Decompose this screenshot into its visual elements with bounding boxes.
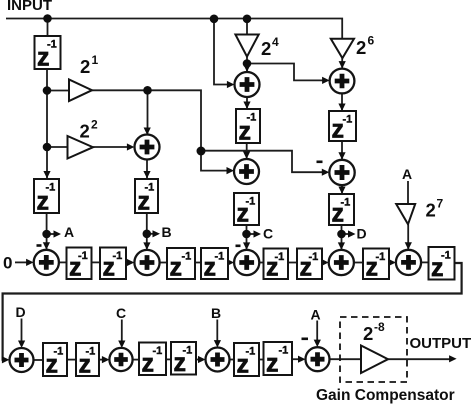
delay Z15 xyxy=(329,194,354,228)
amplifier 2^1 xyxy=(69,53,99,101)
wire adder S7 down into Z12 xyxy=(243,97,250,109)
delay Z4 xyxy=(100,248,126,282)
svg-text:-1: -1 xyxy=(47,39,57,51)
delay Z13 xyxy=(234,193,259,228)
minus sign at adder S3 input xyxy=(236,245,241,248)
wire adder S9 down into Z14 xyxy=(338,93,345,111)
svg-text:2: 2 xyxy=(261,38,271,59)
delay Z19 xyxy=(171,342,196,377)
svg-text:z: z xyxy=(266,350,279,378)
node input tap T2 xyxy=(210,14,219,23)
wire label C down into adder S12 xyxy=(118,320,125,349)
adder S6 xyxy=(135,135,160,160)
node N1 xyxy=(43,86,52,95)
wire Z12 down into adder S8 xyxy=(243,143,250,159)
svg-text:INPUT: INPUT xyxy=(7,0,52,14)
delay Z20 xyxy=(234,343,259,379)
adder S1 xyxy=(34,250,59,275)
svg-text:-1: -1 xyxy=(441,250,451,262)
svg-text:-1: -1 xyxy=(46,182,56,194)
svg-text:-1: -1 xyxy=(145,182,155,194)
wire adder S1 to Z3 xyxy=(59,261,67,263)
adder S13 xyxy=(206,348,230,372)
wire node N4 into adder S8 xyxy=(201,151,234,174)
delay Z11 xyxy=(135,179,158,216)
wire node N3 down into adder S6 xyxy=(144,90,151,135)
wire node N5 into adder S7 xyxy=(243,64,250,73)
wire Z2 through node A down into adder S1 xyxy=(43,213,50,250)
wire Z17 into adder S12 xyxy=(99,356,109,363)
svg-text:2: 2 xyxy=(363,323,373,344)
amplifier 2^2 xyxy=(68,118,99,159)
delay Z3 xyxy=(67,248,92,282)
delay Z12 xyxy=(236,109,260,146)
svg-text:1: 1 xyxy=(92,53,99,67)
svg-text:D: D xyxy=(357,226,367,242)
adder S2 xyxy=(134,250,159,275)
wire adder S10 down into Z15 xyxy=(338,185,345,194)
delay Z1 xyxy=(35,36,61,72)
wire adder S3 to Z7 xyxy=(259,262,263,264)
dashed box gain compensator xyxy=(340,317,407,382)
wire Z21 into adder S14 xyxy=(292,356,306,363)
adder S4 xyxy=(329,250,354,275)
svg-text:7: 7 xyxy=(437,197,444,211)
wire Z4 into adder S2 xyxy=(126,259,134,266)
adder S8 xyxy=(234,159,259,184)
wire node N2 to amp 2^2 xyxy=(47,146,68,148)
svg-text:6: 6 xyxy=(368,34,375,48)
wire adder S2 to Z5 xyxy=(160,262,167,264)
delay Z9 xyxy=(363,249,389,282)
node input tap T3 xyxy=(243,14,252,23)
wire Z1 to node N1 xyxy=(46,69,48,91)
delay Z8 xyxy=(297,249,322,282)
wire node N5 to adder S9 xyxy=(247,64,330,85)
adder S7 xyxy=(235,72,260,97)
wire node C to label C xyxy=(247,230,262,237)
wire Z20 to Z21 xyxy=(259,359,264,361)
svg-text:-1: -1 xyxy=(247,112,257,124)
node N5 xyxy=(243,59,252,68)
node N3 xyxy=(143,86,152,95)
node input tap T1 xyxy=(43,14,52,23)
minus sign at adder S1 input xyxy=(37,244,42,247)
delay Z21 xyxy=(264,342,293,378)
svg-text:A: A xyxy=(402,166,412,182)
adder S3 xyxy=(234,250,259,275)
delay Z6 xyxy=(201,248,228,282)
delay Z5 xyxy=(167,248,195,282)
wire amp 2^1 output to corner node N4 xyxy=(92,90,201,151)
wire amp 2^6 into adder S9 xyxy=(339,58,346,68)
amplifier 2^4 xyxy=(235,35,279,60)
adder S9 xyxy=(330,69,355,94)
svg-text:-1: -1 xyxy=(113,250,123,262)
wire amp 2^7 into adder S5 xyxy=(405,224,412,250)
svg-text:B: B xyxy=(211,305,221,321)
svg-text:Gain Compensator: Gain Compensator xyxy=(316,387,455,404)
delay Z16 xyxy=(43,343,67,379)
delay Z17 xyxy=(76,343,99,379)
wire node N1 to amp 2^1 xyxy=(47,90,69,92)
wire label A down to amp 2^7 xyxy=(407,181,409,204)
delay Z7 xyxy=(264,249,289,282)
wire amp 2^4 output to node N5 xyxy=(246,57,248,64)
svg-text:-1: -1 xyxy=(86,346,96,358)
wire label D down into adder S11 xyxy=(18,319,25,349)
svg-text:D: D xyxy=(16,304,26,320)
wire gain amp to output xyxy=(388,355,457,362)
svg-text:B: B xyxy=(162,224,172,240)
wire Z6 into adder S3 xyxy=(227,259,235,266)
adder S10 xyxy=(329,160,354,185)
wire Z9 into adder S5 xyxy=(388,259,396,266)
wire Z16 to Z17 xyxy=(67,359,76,361)
wire Z8 into adder S4 xyxy=(321,259,329,266)
adder S14 xyxy=(306,347,330,371)
wire node B to label B xyxy=(147,230,160,237)
svg-text:-1: -1 xyxy=(309,251,319,263)
svg-text:-1: -1 xyxy=(183,345,193,357)
svg-text:2: 2 xyxy=(80,121,90,142)
node N2 xyxy=(43,143,52,152)
svg-text:C: C xyxy=(116,305,126,321)
svg-text:-1: -1 xyxy=(215,251,225,263)
amplifier 2^7 xyxy=(396,197,443,225)
adder S11 xyxy=(10,348,34,372)
svg-text:-1: -1 xyxy=(182,251,192,263)
svg-text:-1: -1 xyxy=(376,251,386,263)
wire adder S11 to Z16 xyxy=(34,359,43,361)
node D xyxy=(337,230,346,239)
svg-text:-1: -1 xyxy=(246,346,256,358)
node A xyxy=(42,230,51,239)
svg-text:A: A xyxy=(64,224,74,240)
amplifier gain 2^-8 xyxy=(361,320,388,373)
wire input tap down to Z1 xyxy=(47,19,49,37)
wire input tap T2 down and into adder S7 xyxy=(214,19,234,89)
node N4 xyxy=(197,147,206,156)
node B xyxy=(143,230,152,239)
wire feedback Z10 around to adder S11 xyxy=(2,263,462,363)
wire input bus to 2^6 xyxy=(6,19,342,39)
svg-text:2: 2 xyxy=(426,200,436,221)
minus sign at adder S10 input xyxy=(317,161,323,164)
svg-text:-1: -1 xyxy=(54,346,64,358)
svg-text:A: A xyxy=(311,307,321,323)
wire Z15 through node D down into adder S4 xyxy=(338,225,345,250)
wire Z7 to Z8 xyxy=(288,262,297,264)
svg-text:4: 4 xyxy=(272,35,279,49)
wire input tap T3 down to amp 2^4 xyxy=(246,19,248,35)
wire node N2 down into Z2 xyxy=(43,147,50,179)
node C xyxy=(242,230,251,239)
wire adder S5 to Z10 xyxy=(421,261,428,263)
svg-text:C: C xyxy=(263,226,273,242)
amplifier 2^6 xyxy=(331,34,375,59)
adder S12 xyxy=(109,348,132,371)
minus sign at adder S14 input xyxy=(302,337,309,340)
svg-text:2: 2 xyxy=(356,37,366,58)
svg-text:2: 2 xyxy=(91,118,98,132)
wire label A down into adder S14 xyxy=(314,321,321,348)
wire node A to label A xyxy=(47,230,61,237)
wire Z3 to Z4 xyxy=(92,261,101,263)
wire zero input into adder S1 xyxy=(15,259,34,266)
svg-text:2: 2 xyxy=(80,56,90,77)
delay Z2 xyxy=(34,179,59,216)
svg-text:-1: -1 xyxy=(275,251,285,263)
svg-text:OUTPUT: OUTPUT xyxy=(410,335,472,352)
adder S5 xyxy=(396,250,421,275)
svg-text:-1: -1 xyxy=(341,197,351,209)
svg-text:-1: -1 xyxy=(279,345,289,357)
wire node D to label D xyxy=(342,230,356,237)
wire Z14 down into adder S10 xyxy=(338,141,345,160)
svg-text:-1: -1 xyxy=(343,114,353,126)
svg-text:0: 0 xyxy=(3,254,12,273)
svg-text:-8: -8 xyxy=(374,320,385,334)
wire adder S4 to Z9 xyxy=(354,262,363,264)
wire adder S6 down into Z11 xyxy=(143,160,150,179)
wire node N1 to node N2 xyxy=(46,91,48,148)
wire amp 2^2 output into adder S6 xyxy=(93,143,134,150)
wire adder S12 to Z18 xyxy=(133,359,139,361)
wire node N4 to adder S10 xyxy=(201,151,329,176)
wire Z18 to Z19 xyxy=(166,358,171,360)
wire label B down into adder S13 xyxy=(214,320,221,348)
svg-text:-1: -1 xyxy=(153,345,163,357)
delay Z18 xyxy=(139,343,166,378)
wire Z19 into adder S13 xyxy=(196,356,206,363)
delay Z14 xyxy=(329,111,356,144)
svg-text:-1: -1 xyxy=(246,196,256,208)
wire adder S14 to gain amp xyxy=(330,358,362,360)
svg-text:z: z xyxy=(170,254,183,282)
delay Z10 xyxy=(429,247,455,282)
wire Z13 through node C down into adder S3 xyxy=(243,225,250,250)
wire adder S13 to Z20 xyxy=(230,359,235,361)
wire Z5 to Z6 xyxy=(195,262,201,264)
wire Z11 through node B down into adder S2 xyxy=(143,213,150,250)
svg-text:-1: -1 xyxy=(78,250,88,262)
